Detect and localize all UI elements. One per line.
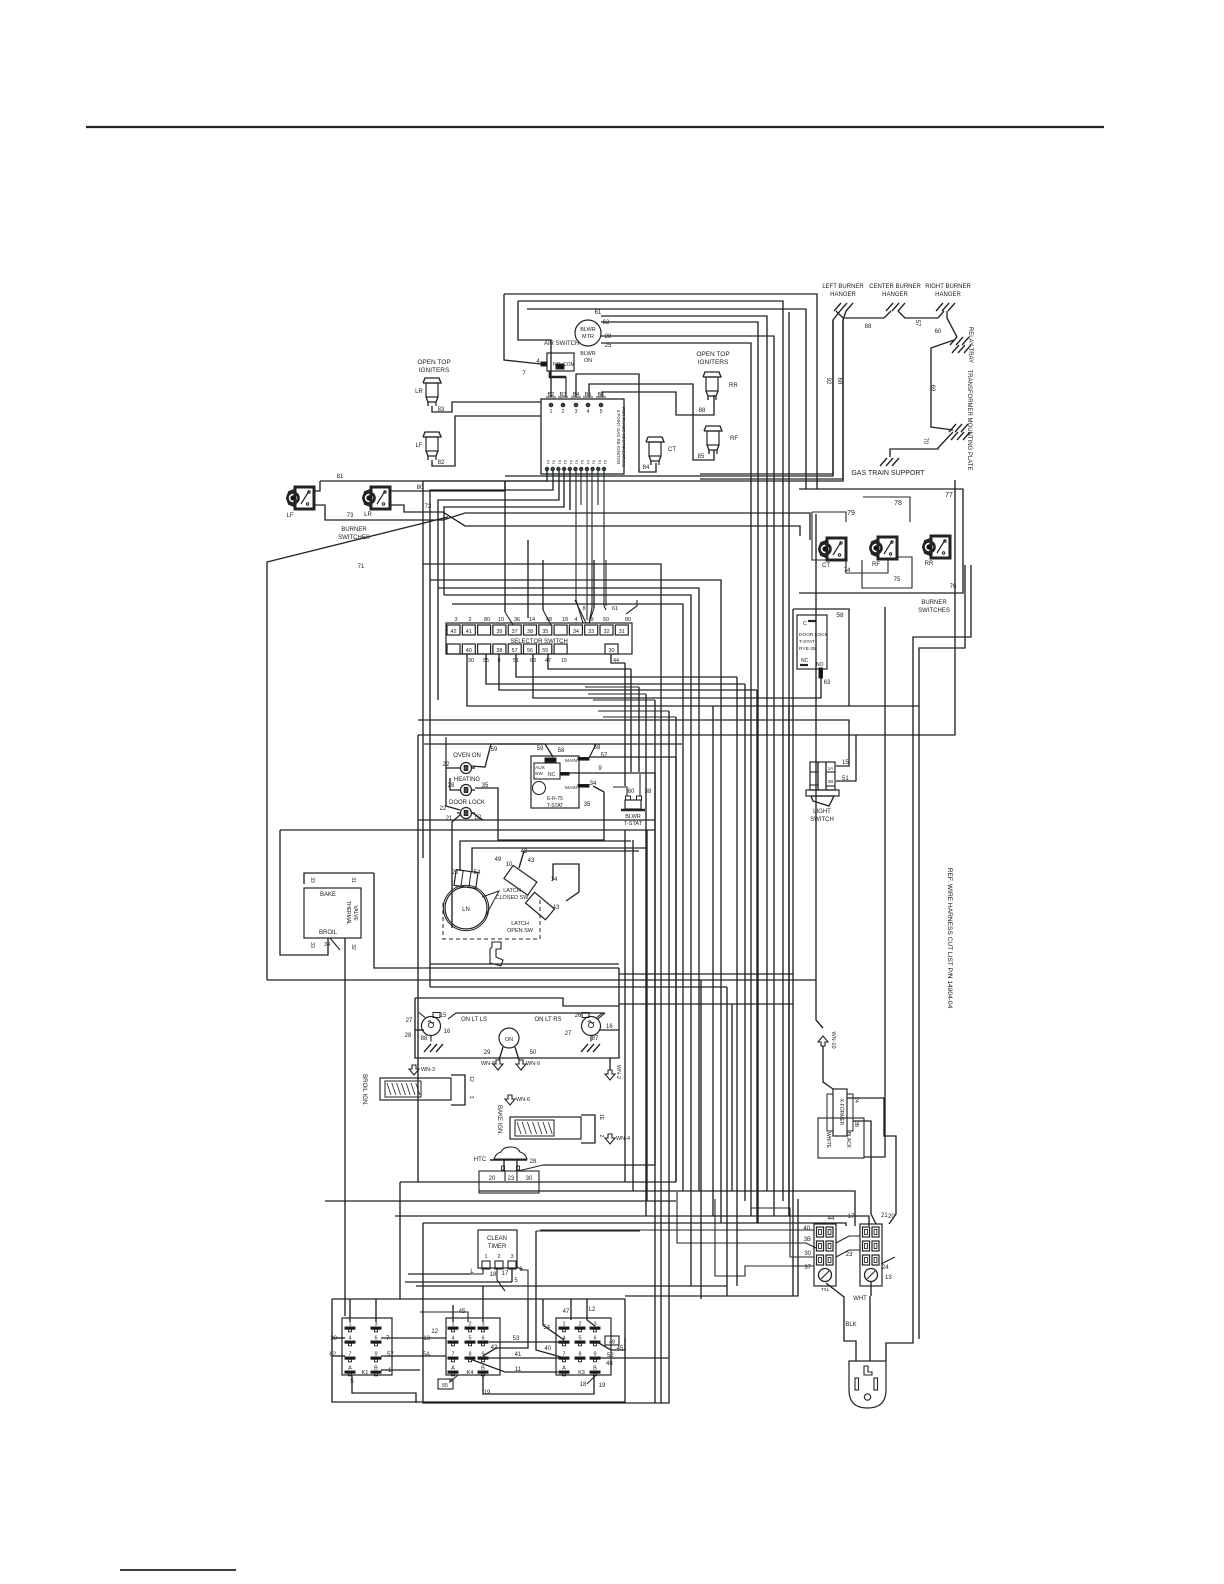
svg-text:IGNITERS: IGNITERS [419, 367, 450, 374]
svg-text:BLWR: BLWR [580, 327, 596, 333]
svg-text:L2: L2 [589, 1307, 596, 1313]
svg-text:BAKE IGN.: BAKE IGN. [496, 1105, 502, 1135]
svg-text:LATCH: LATCH [503, 888, 521, 894]
svg-text:60: 60 [935, 329, 942, 335]
svg-text:SWITCH: SWITCH [810, 817, 834, 823]
svg-text:NO: NO [816, 662, 824, 668]
svg-text:23: 23 [508, 1176, 515, 1182]
svg-text:9: 9 [374, 1352, 377, 1358]
svg-text:18: 18 [580, 1382, 587, 1388]
svg-text:BLWR: BLWR [580, 351, 596, 357]
svg-text:LR: LR [415, 389, 423, 395]
svg-text:79: 79 [847, 510, 855, 517]
svg-text:LF: LF [415, 443, 422, 449]
svg-text:AUX: AUX [535, 765, 546, 771]
svg-text:4: 4 [574, 617, 577, 623]
svg-text:ON: ON [505, 1037, 513, 1043]
svg-text:1A: 1A [828, 766, 834, 771]
svg-text:CT: CT [822, 563, 830, 569]
svg-text:T-STAT: T-STAT [799, 639, 815, 645]
svg-text:B: B [374, 1366, 378, 1372]
svg-text:RYE-25: RYE-25 [799, 646, 816, 652]
svg-text:13: 13 [885, 1275, 892, 1281]
svg-text:59: 59 [491, 747, 498, 753]
svg-text:88: 88 [865, 324, 872, 330]
svg-text:14: 14 [529, 617, 535, 623]
svg-text:1: 1 [451, 1322, 454, 1328]
svg-text:CT: CT [668, 447, 676, 453]
svg-text:70: 70 [922, 438, 928, 445]
svg-text:5: 5 [468, 1336, 471, 1342]
svg-text:50: 50 [603, 617, 609, 623]
svg-text:18: 18 [490, 1272, 497, 1278]
svg-text:BROIL IGN.: BROIL IGN. [361, 1074, 367, 1106]
svg-text:5A: 5A [423, 1352, 430, 1358]
svg-text:12: 12 [468, 1076, 474, 1082]
svg-text:15: 15 [842, 760, 849, 766]
svg-text:N1: N1 [592, 460, 596, 464]
svg-text:N1: N1 [552, 460, 556, 464]
svg-text:OPEN TOP: OPEN TOP [696, 351, 729, 358]
svg-text:78: 78 [894, 500, 902, 507]
svg-text:B: B [481, 1366, 485, 1372]
svg-text:42: 42 [450, 629, 456, 635]
svg-text:32: 32 [603, 629, 609, 635]
svg-text:BURNER: BURNER [921, 600, 947, 606]
svg-text:1: 1 [388, 1368, 392, 1374]
svg-text:55: 55 [442, 1383, 448, 1389]
svg-text:9: 9 [593, 1352, 596, 1358]
svg-text:68: 68 [836, 378, 842, 385]
svg-text:13: 13 [423, 1336, 430, 1342]
svg-text:41: 41 [466, 629, 472, 635]
svg-text:45: 45 [617, 1346, 624, 1352]
svg-text:10: 10 [506, 862, 513, 868]
svg-text:30: 30 [804, 1251, 811, 1257]
svg-text:B: B [593, 1366, 597, 1372]
svg-text:19: 19 [599, 1383, 606, 1389]
svg-text:FOR FLAME RECTIFICATION: FOR FLAME RECTIFICATION [621, 407, 626, 467]
svg-text:7: 7 [386, 1336, 390, 1342]
svg-text:30: 30 [468, 658, 474, 664]
svg-text:LN: LN [462, 907, 470, 913]
svg-text:33: 33 [309, 877, 315, 883]
svg-text:IGNITERS: IGNITERS [698, 359, 729, 366]
svg-text:VALVE: VALVE [352, 905, 358, 921]
svg-text:55: 55 [542, 648, 548, 654]
svg-text:A: A [348, 1366, 352, 1372]
svg-text:25: 25 [605, 343, 612, 349]
svg-text:62: 62 [329, 1352, 336, 1358]
svg-text:12: 12 [431, 1329, 438, 1335]
svg-text:10: 10 [498, 617, 504, 623]
svg-text:20: 20 [489, 1176, 496, 1182]
svg-text:31: 31 [619, 629, 625, 635]
svg-text:4: 4 [451, 1336, 454, 1342]
svg-text:87: 87 [592, 1036, 599, 1042]
svg-text:SWITCHES: SWITCHES [918, 608, 950, 614]
svg-text:57: 57 [601, 753, 608, 759]
svg-text:35: 35 [584, 802, 591, 808]
svg-text:RR: RR [729, 383, 738, 389]
svg-text:40: 40 [803, 1226, 810, 1232]
svg-text:K3: K3 [578, 1370, 585, 1376]
svg-text:AIR SWITCH: AIR SWITCH [544, 341, 579, 347]
svg-text:69: 69 [929, 385, 935, 392]
svg-text:5: 5 [578, 1336, 581, 1342]
svg-text:E-R-75: E-R-75 [547, 796, 563, 802]
svg-text:3: 3 [575, 409, 578, 415]
svg-text:61: 61 [595, 310, 602, 316]
svg-text:36: 36 [514, 617, 520, 623]
svg-text:OVEN ON: OVEN ON [453, 753, 481, 759]
svg-text:9: 9 [481, 1352, 484, 1358]
svg-text:77: 77 [945, 492, 953, 499]
svg-text:LEFT BURNER: LEFT BURNER [822, 284, 864, 290]
svg-text:1: 1 [348, 1322, 351, 1328]
svg-text:28: 28 [405, 1033, 412, 1039]
svg-text:5: 5 [514, 1278, 518, 1284]
svg-text:NC: NC [801, 658, 809, 664]
svg-text:14: 14 [551, 877, 558, 883]
svg-text:5: 5 [600, 409, 603, 415]
svg-text:47: 47 [563, 1309, 570, 1315]
svg-text:WN-9: WN-9 [526, 1061, 540, 1067]
svg-text:MAIN: MAIN [565, 785, 578, 791]
svg-text:72: 72 [425, 504, 432, 510]
svg-text:6: 6 [593, 1336, 596, 1342]
svg-text:57: 57 [512, 648, 518, 654]
svg-text:3: 3 [481, 1322, 484, 1328]
svg-text:RR: RR [925, 561, 934, 567]
svg-text:RF: RF [730, 436, 738, 442]
svg-text:76: 76 [950, 584, 957, 590]
svg-text:N1: N1 [603, 460, 607, 464]
svg-text:WN-2: WN-2 [615, 1065, 621, 1079]
svg-text:71: 71 [358, 564, 365, 570]
svg-text:57: 57 [387, 1352, 394, 1358]
svg-text:63: 63 [824, 680, 831, 686]
svg-text:C: C [803, 621, 807, 627]
svg-text:2: 2 [562, 409, 565, 415]
svg-text:TRANSFORMER MOUNTING PLATE: TRANSFORMER MOUNTING PLATE [966, 370, 972, 471]
svg-text:3: 3 [468, 1096, 474, 1099]
svg-text:30: 30 [608, 648, 614, 654]
svg-text:BAKE: BAKE [320, 892, 336, 898]
svg-text:53: 53 [513, 1336, 520, 1342]
svg-text:17: 17 [848, 1214, 855, 1220]
svg-text:ON: ON [584, 358, 592, 364]
svg-text:4: 4 [348, 1336, 351, 1342]
svg-text:2: 2 [468, 1322, 471, 1328]
svg-text:37: 37 [512, 629, 518, 635]
svg-text:X-FORMER: X-FORMER [838, 1099, 844, 1126]
svg-text:WN-10: WN-10 [830, 1031, 836, 1048]
svg-text:4: 4 [587, 409, 590, 415]
svg-text:1: 1 [562, 1322, 565, 1328]
svg-text:REF. WIRE HARNESS CUT LIST P/N: REF. WIRE HARNESS CUT LIST P/N 14904-04 [946, 868, 953, 1009]
svg-text:K4: K4 [467, 1370, 474, 1376]
svg-text:19: 19 [484, 1390, 491, 1396]
svg-text:4 POINT GAS RE-IGNITOR: 4 POINT GAS RE-IGNITOR [616, 410, 621, 465]
svg-text:T-STAT: T-STAT [547, 803, 563, 809]
svg-text:1E: 1E [598, 1114, 604, 1121]
svg-text:BLACK: BLACK [845, 1132, 851, 1149]
svg-text:WHT: WHT [853, 1296, 867, 1302]
svg-text:ON LT LS: ON LT LS [461, 1017, 487, 1023]
svg-text:8: 8 [468, 1352, 471, 1358]
svg-text:8: 8 [578, 1352, 581, 1358]
svg-text:WN-3: WN-3 [421, 1067, 435, 1073]
svg-text:THERMAL: THERMAL [345, 901, 351, 925]
svg-text:17: 17 [502, 1271, 509, 1277]
svg-text:3: 3 [510, 1254, 513, 1260]
svg-text:88: 88 [699, 408, 706, 414]
svg-text:80: 80 [484, 617, 490, 623]
svg-text:39: 39 [496, 629, 502, 635]
svg-text:HANGER: HANGER [935, 292, 961, 298]
svg-text:OPEN SW: OPEN SW [507, 928, 534, 934]
svg-text:41: 41 [515, 1352, 522, 1358]
svg-text:2B: 2B [828, 779, 834, 784]
svg-text:29: 29 [484, 1050, 491, 1056]
svg-text:73: 73 [347, 513, 354, 519]
svg-text:48: 48 [609, 1340, 615, 1346]
svg-text:BROIL: BROIL [319, 930, 338, 936]
svg-text:7: 7 [348, 1352, 351, 1358]
svg-text:NC: NC [548, 772, 556, 778]
svg-text:7: 7 [562, 1352, 565, 1358]
svg-text:60: 60 [628, 789, 635, 795]
svg-text:38: 38 [496, 648, 502, 654]
svg-text:88: 88 [421, 1036, 428, 1042]
svg-text:35: 35 [542, 629, 548, 635]
svg-text:32: 32 [350, 944, 356, 950]
svg-text:HEATING: HEATING [454, 777, 481, 783]
svg-text:40: 40 [544, 1346, 551, 1352]
svg-text:WN-6: WN-6 [516, 1097, 530, 1103]
svg-text:33: 33 [588, 629, 594, 635]
svg-text:LR: LR [364, 512, 372, 518]
svg-text:TIMER: TIMER [488, 1244, 507, 1250]
svg-text:RELAY TRAY: RELAY TRAY [967, 327, 973, 363]
svg-text:A: A [451, 1366, 455, 1372]
svg-text:N1: N1 [569, 460, 573, 464]
svg-text:3: 3 [374, 1322, 377, 1328]
svg-text:HANGER: HANGER [882, 292, 908, 298]
svg-text:N1: N1 [580, 460, 584, 464]
svg-text:MTR: MTR [582, 334, 594, 340]
svg-text:7: 7 [522, 371, 526, 377]
svg-text:3B: 3B [853, 1121, 859, 1128]
svg-text:27: 27 [565, 1031, 572, 1037]
svg-text:81: 81 [337, 474, 344, 480]
svg-text:CENTER BURNER: CENTER BURNER [869, 284, 921, 290]
svg-text:43: 43 [528, 858, 535, 864]
svg-text:2: 2 [598, 1135, 604, 1138]
svg-text:58: 58 [558, 748, 565, 754]
svg-text:50: 50 [530, 1050, 537, 1056]
svg-text:N1: N1 [575, 460, 579, 464]
svg-text:18: 18 [562, 617, 568, 623]
svg-text:3B: 3B [804, 1237, 811, 1243]
svg-text:3: 3 [454, 617, 457, 623]
svg-text:6: 6 [481, 1336, 484, 1342]
svg-text:T-STAT: T-STAT [624, 821, 643, 827]
svg-text:16: 16 [606, 1024, 613, 1030]
svg-text:6: 6 [374, 1336, 377, 1342]
svg-text:80: 80 [625, 617, 631, 623]
svg-text:56: 56 [527, 648, 533, 654]
svg-text:1: 1 [484, 1254, 487, 1260]
svg-text:BLK: BLK [845, 1322, 856, 1328]
svg-text:28: 28 [605, 334, 612, 340]
svg-text:N1: N1 [557, 460, 561, 464]
svg-text:N1: N1 [563, 460, 567, 464]
svg-text:40: 40 [466, 648, 472, 654]
svg-text:N1: N1 [597, 460, 601, 464]
svg-text:N1: N1 [586, 460, 590, 464]
svg-text:A: A [562, 1366, 566, 1372]
svg-text:28: 28 [448, 783, 455, 789]
svg-text:15: 15 [440, 1013, 447, 1019]
svg-text:24: 24 [882, 1265, 889, 1271]
svg-text:34: 34 [324, 942, 330, 948]
svg-text:84: 84 [643, 465, 650, 471]
svg-text:OPEN TOP: OPEN TOP [417, 359, 450, 366]
svg-text:TXL: TXL [821, 1287, 830, 1292]
svg-text:38: 38 [527, 629, 533, 635]
svg-text:GAS TRAIN SUPPORT: GAS TRAIN SUPPORT [851, 470, 925, 477]
svg-text:2: 2 [578, 1322, 581, 1328]
svg-text:COM: COM [563, 362, 575, 368]
svg-text:26: 26 [575, 1013, 582, 1019]
svg-text:21: 21 [446, 816, 453, 822]
svg-text:48: 48 [606, 1361, 613, 1367]
svg-text:9: 9 [598, 766, 602, 772]
svg-text:WN-4: WN-4 [616, 1136, 630, 1142]
svg-text:LATCH: LATCH [511, 921, 529, 927]
svg-text:58: 58 [836, 612, 844, 619]
svg-text:43: 43 [553, 905, 560, 911]
svg-text:20: 20 [452, 870, 459, 876]
svg-text:RF: RF [872, 562, 880, 568]
svg-text:7: 7 [451, 1352, 454, 1358]
svg-text:BLWR: BLWR [625, 814, 641, 820]
svg-text:28: 28 [530, 1159, 537, 1165]
svg-text:DOOR LOCK: DOOR LOCK [449, 800, 485, 806]
svg-text:22: 22 [440, 806, 447, 812]
svg-text:33: 33 [309, 942, 315, 948]
svg-text:CLEAN: CLEAN [487, 1236, 507, 1242]
svg-text:CLOSED SW: CLOSED SW [495, 895, 529, 901]
svg-text:BURNER: BURNER [341, 527, 367, 533]
svg-text:57: 57 [914, 320, 920, 327]
svg-text:82: 82 [438, 460, 445, 466]
svg-text:15: 15 [561, 658, 567, 664]
svg-text:30: 30 [526, 1176, 533, 1182]
svg-text:HANGER: HANGER [830, 292, 856, 298]
svg-text:31: 31 [350, 877, 356, 883]
svg-text:2: 2 [497, 1254, 500, 1260]
svg-text:1: 1 [550, 409, 553, 415]
svg-text:92: 92 [825, 378, 831, 385]
svg-text:RIGHT BURNER: RIGHT BURNER [925, 284, 971, 290]
svg-text:85: 85 [698, 454, 705, 460]
svg-text:8: 8 [582, 606, 585, 612]
svg-text:SW: SW [535, 771, 543, 777]
svg-text:75: 75 [894, 577, 901, 583]
svg-text:59: 59 [537, 746, 544, 752]
svg-text:DOOR LOCK: DOOR LOCK [799, 632, 829, 638]
svg-text:16: 16 [444, 1029, 451, 1035]
svg-text:WN-8: WN-8 [481, 1061, 495, 1067]
svg-text:HTC: HTC [474, 1157, 487, 1163]
svg-text:K1: K1 [362, 1370, 369, 1376]
svg-text:44: 44 [828, 1216, 835, 1222]
svg-text:N1: N1 [546, 460, 550, 464]
svg-text:34: 34 [573, 629, 579, 635]
svg-text:27: 27 [406, 1018, 413, 1024]
svg-text:2: 2 [468, 617, 471, 623]
svg-text:23: 23 [846, 1252, 853, 1258]
svg-text:MAIN: MAIN [565, 758, 578, 764]
svg-text:62: 62 [603, 320, 610, 326]
svg-text:WHITE: WHITE [825, 1132, 831, 1149]
svg-text:61: 61 [612, 606, 618, 612]
svg-text:LF: LF [286, 513, 293, 519]
svg-text:54: 54 [474, 870, 481, 876]
svg-text:49: 49 [495, 857, 502, 863]
svg-text:ON LT RS: ON LT RS [534, 1017, 561, 1023]
